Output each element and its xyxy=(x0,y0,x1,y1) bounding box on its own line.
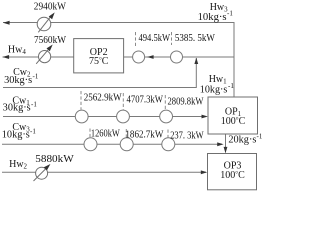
svg-text:494.5kW: 494.5kW xyxy=(139,33,171,44)
svg-text:5385. 5kW: 5385. 5kW xyxy=(175,33,215,44)
svg-text:237. 3kW: 237. 3kW xyxy=(170,131,204,142)
svg-text:100°C: 100°C xyxy=(220,170,245,181)
svg-text:2809.8kW: 2809.8kW xyxy=(168,97,204,108)
svg-text:-1: -1 xyxy=(31,101,37,109)
svg-text:10kg·s: 10kg·s xyxy=(198,12,227,23)
svg-text:2562.9kW: 2562.9kW xyxy=(84,93,122,104)
svg-text:-1: -1 xyxy=(228,82,234,90)
svg-text:10kg·s: 10kg·s xyxy=(2,129,30,140)
svg-text:1862.7kW: 1862.7kW xyxy=(125,130,163,141)
svg-text:1260kW: 1260kW xyxy=(91,129,120,140)
svg-text:-1: -1 xyxy=(227,10,233,18)
svg-text:-1: -1 xyxy=(257,132,263,140)
svg-text:7560kW: 7560kW xyxy=(34,35,67,46)
svg-text:4707.3kW: 4707.3kW xyxy=(127,95,164,106)
svg-text:20kg·s: 20kg·s xyxy=(228,135,256,146)
svg-text:-1: -1 xyxy=(30,127,36,135)
svg-text:100°C: 100°C xyxy=(221,116,246,127)
svg-text:-1: -1 xyxy=(33,73,39,81)
svg-text:2940kW: 2940kW xyxy=(34,2,67,13)
svg-text:30kg·s: 30kg·s xyxy=(4,75,32,86)
svg-text:75°C: 75°C xyxy=(89,56,109,67)
svg-text:10kg·s: 10kg·s xyxy=(200,84,228,95)
svg-text:5880kW: 5880kW xyxy=(35,154,74,165)
svg-text:30kg·s: 30kg·s xyxy=(3,103,31,114)
